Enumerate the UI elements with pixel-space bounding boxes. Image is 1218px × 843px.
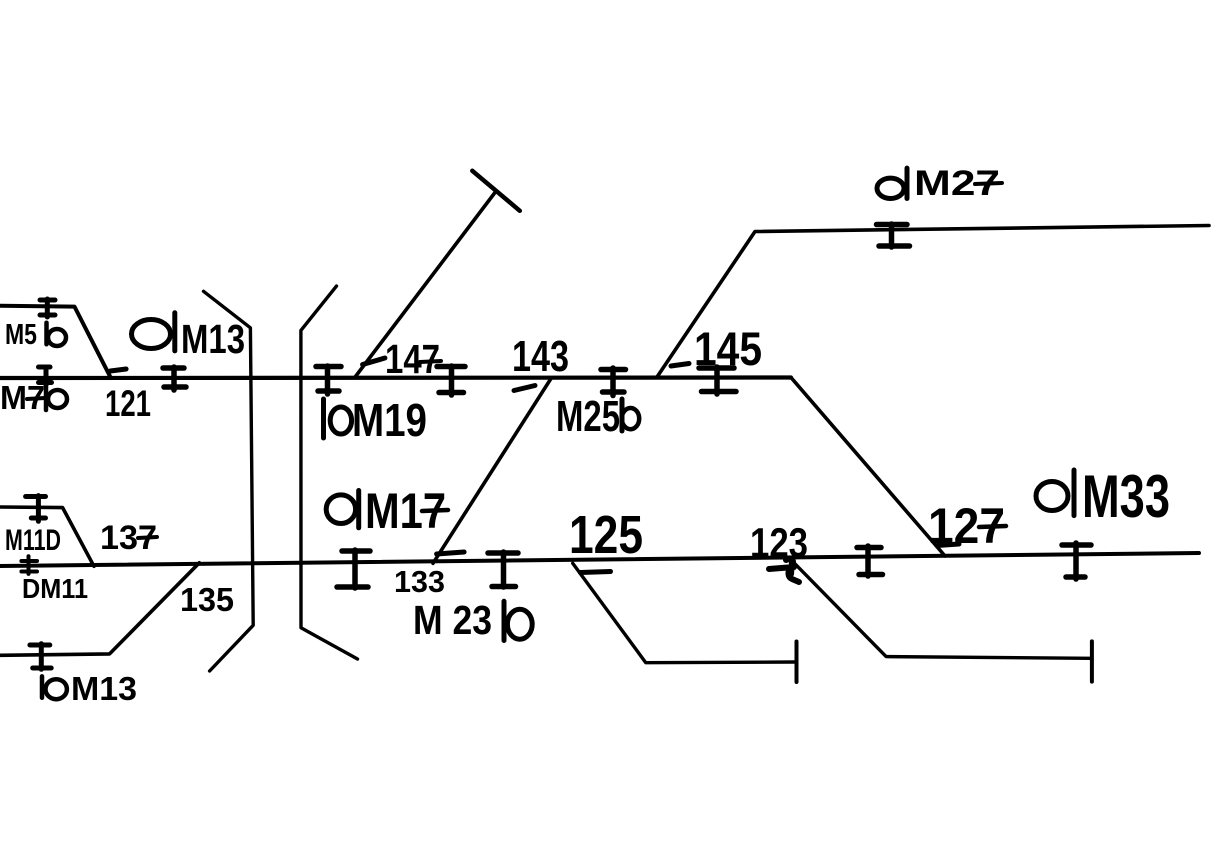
wire stub track M5 (top left) xyxy=(0,306,111,378)
insulated joint on stub M13 bottom xyxy=(30,644,51,670)
svg-text:145: 145 xyxy=(694,322,762,375)
svg-text:M17: M17 xyxy=(365,483,446,539)
insulated joint IL4 on lower line (x=1076) xyxy=(1062,543,1091,579)
insulated joint I6 on top line (x=717) xyxy=(699,367,736,394)
signal mast bar M23 xyxy=(502,601,507,640)
wire stub track M11 (left) xyxy=(0,507,94,566)
signal lamp circle M5 xyxy=(48,329,66,346)
svg-text:125: 125 xyxy=(569,505,643,565)
crossbar of handwritten 7 in M17 xyxy=(422,510,448,511)
insulated joint I2 on top line (x=174) xyxy=(163,367,186,390)
signal mast bar M25 xyxy=(620,399,625,431)
wire siding 125 branch xyxy=(573,563,796,663)
crossbar of handwritten 7 in 127 xyxy=(979,526,1006,527)
svg-text:127: 127 xyxy=(928,498,1005,554)
buffer stop at end of track 147 xyxy=(472,171,520,211)
crossbar of handwritten 7 in 147 xyxy=(420,361,441,362)
signal mast bar M33 xyxy=(1072,470,1077,516)
insulated joint on stub M11 xyxy=(26,496,46,522)
wire crossover 143 diagonal xyxy=(433,379,551,564)
tick mark at turnout 145 xyxy=(671,364,689,367)
signal mast bar M17 xyxy=(356,491,361,528)
tick mark at turnout 125 xyxy=(581,572,611,573)
tick mark at turnout 121 xyxy=(110,369,126,371)
wire stub track 147 diagonal xyxy=(356,193,495,377)
svg-text:M33: M33 xyxy=(1082,463,1170,530)
svg-text:M5: M5 xyxy=(5,319,37,351)
insulated joint on stub M5 xyxy=(40,299,55,317)
svg-text:M19: M19 xyxy=(352,394,427,446)
insulated joint I4 on top line (x=451) xyxy=(437,366,465,395)
insulated joint IL2 on lower line (x=503) xyxy=(488,552,518,587)
svg-text:135: 135 xyxy=(180,581,234,618)
svg-text:121: 121 xyxy=(105,383,151,424)
signal lamp circle M25 xyxy=(622,408,639,429)
svg-text:M13: M13 xyxy=(181,316,245,362)
svg-text:143: 143 xyxy=(512,332,569,381)
wire stub track M13 (bottom left) xyxy=(0,563,199,656)
insulated joint IL1 on lower line (x=355) xyxy=(337,550,370,588)
signal mast bar M13 top xyxy=(172,313,177,351)
svg-text:147: 147 xyxy=(385,336,440,382)
small insulated joint on lower line near DM11 xyxy=(21,556,37,574)
tick mark at turnout 147 xyxy=(363,358,385,365)
svg-text:M27: M27 xyxy=(914,164,1000,203)
signal lamp circle M19 xyxy=(330,407,351,434)
buffer stop at end of siding 125 xyxy=(795,642,799,683)
wire track 1 (top main line) xyxy=(0,375,791,380)
insulated joint I1 on top line (at M7) xyxy=(39,367,52,385)
scribble mark at turnout 123 xyxy=(769,559,799,582)
insulated joint IL3 on lower line (x=868) xyxy=(857,546,883,576)
tick mark at turnout 133 xyxy=(437,552,465,554)
svg-text:M25: M25 xyxy=(556,392,620,441)
insulated joint on siding M27 (x=892) xyxy=(877,224,910,247)
signal mast bar M7 xyxy=(44,372,49,410)
signal lamp circle M13 bottom xyxy=(46,679,67,699)
insulated joint I3 on top line (x=327) xyxy=(316,366,341,394)
signal lamp circle M33 xyxy=(1036,482,1068,511)
insulated joint I5 on top line (x=613) xyxy=(601,368,626,396)
buffer stop at end of siding 123 xyxy=(1090,641,1094,681)
signal lamp circle M27 xyxy=(877,178,904,198)
signal lamp circle M23 xyxy=(507,609,532,639)
svg-text:M 23: M 23 xyxy=(413,597,492,643)
crossbar of handwritten 7 in M27 xyxy=(975,183,1002,184)
crossbar of handwritten 7 in 137 xyxy=(138,537,157,538)
signal lamp circle M7 xyxy=(48,390,67,408)
signal mast bar M19 xyxy=(321,399,326,438)
svg-text:DM11: DM11 xyxy=(22,573,88,604)
tick mark at turnout 127 xyxy=(937,544,959,546)
bridge left edge xyxy=(204,291,254,671)
svg-text:M7: M7 xyxy=(0,379,45,416)
wire track 2 (lower main line) xyxy=(0,553,1199,566)
wire turnout 127 diagonal from track 1 down to track 2 xyxy=(791,378,945,557)
signal lamp circle M13 top xyxy=(132,320,171,349)
svg-text:M11D: M11D xyxy=(5,524,61,557)
signal mast bar M13 bottom xyxy=(40,676,45,697)
wire siding 123 branch xyxy=(791,560,1090,659)
crossbar of handwritten 7 in M7 xyxy=(27,398,45,399)
signal mast bar M27 xyxy=(905,168,910,198)
svg-text:M13: M13 xyxy=(71,670,137,707)
svg-text:123: 123 xyxy=(750,519,808,566)
svg-text:133: 133 xyxy=(394,564,445,599)
wire siding track M27 (upper right) xyxy=(657,226,1209,378)
signal lamp circle M17 xyxy=(326,495,355,524)
signal mast bar M5 xyxy=(44,323,49,345)
svg-text:137: 137 xyxy=(100,519,157,557)
bridge right edge xyxy=(301,286,358,659)
tick mark at turnout 143 xyxy=(514,386,535,391)
